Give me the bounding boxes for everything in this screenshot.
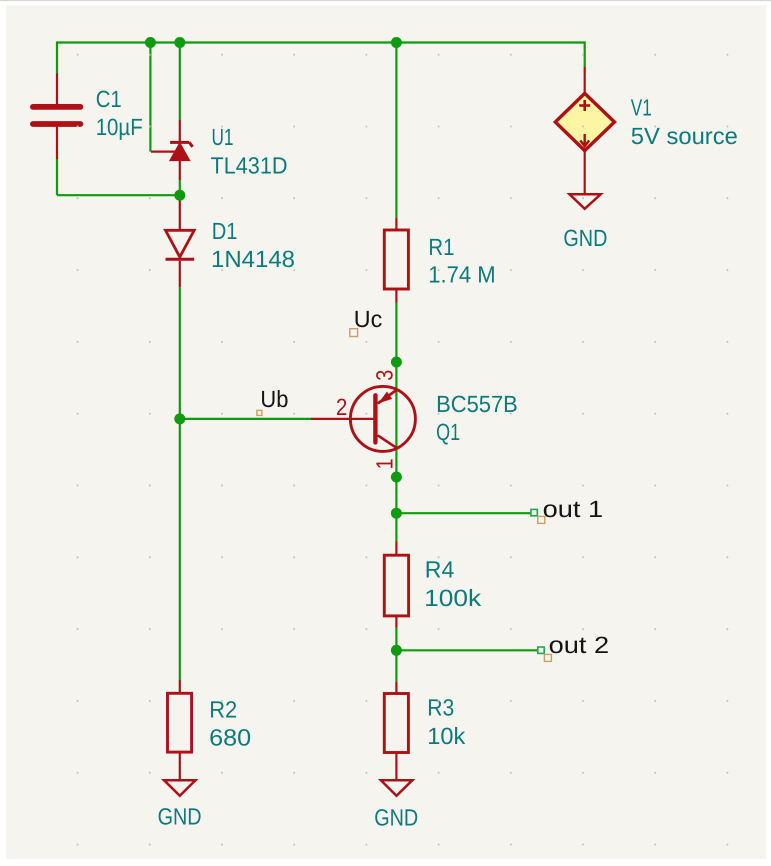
- svg-text:10k: 10k: [427, 723, 465, 749]
- wire drop to C1 top: [56, 41, 58, 73]
- svg-text:1.74 M: 1.74 M: [428, 262, 496, 288]
- svg-text:GND: GND: [374, 805, 418, 831]
- wire R1 through Q1 to R4: [395, 303, 397, 542]
- svg-text:10µF: 10µF: [96, 114, 143, 140]
- svg-text:100k: 100k: [424, 585, 481, 611]
- svg-text:GND: GND: [563, 225, 607, 251]
- wire C1 bottom to U1 anode node: [57, 194, 180, 196]
- diode D1: [166, 196, 195, 287]
- ground below R3: [381, 780, 413, 796]
- capacitor C1: [33, 74, 81, 160]
- junction out 2 tap: [391, 645, 402, 656]
- svg-text:R4: R4: [425, 556, 455, 582]
- svg-text:out 1: out 1: [543, 496, 604, 522]
- junction node Ub: [174, 413, 185, 424]
- junction out 1 tap: [391, 508, 402, 519]
- svg-text:TL431D: TL431D: [211, 153, 288, 179]
- junction node Uc R1 / Q1 emitter: [391, 357, 402, 368]
- svg-text:Ub: Ub: [260, 386, 288, 412]
- resistor R2: [168, 680, 192, 780]
- wire D1 cathode down to R2: [179, 287, 181, 680]
- ground below R2: [164, 780, 196, 796]
- junction top bus / R1: [391, 37, 402, 48]
- resistor R3: [384, 682, 408, 780]
- svg-text:Q1: Q1: [436, 419, 460, 445]
- label anchor out 1: [538, 516, 545, 523]
- voltage source V1: [555, 67, 614, 194]
- wire to out 1: [396, 512, 531, 514]
- svg-text:C1: C1: [96, 86, 122, 112]
- junction top bus / U1 cathode: [174, 37, 185, 48]
- junction node A U1 anode / D1: [174, 190, 185, 201]
- svg-text:1: 1: [372, 458, 398, 469]
- wire top bus from C1 to V1: [57, 41, 585, 43]
- svg-text:D1: D1: [212, 218, 238, 244]
- wire top bus to R1: [395, 43, 397, 218]
- svg-text:R2: R2: [209, 697, 237, 723]
- svg-text:3: 3: [372, 370, 398, 381]
- svg-text:R1: R1: [428, 234, 454, 260]
- svg-text:BC557B: BC557B: [436, 391, 518, 417]
- svg-text:680: 680: [209, 724, 251, 750]
- transistor Q1 BC557B: [311, 386, 415, 451]
- wire C1 bottom drop: [56, 159, 58, 195]
- label anchor Ub: [257, 410, 262, 415]
- wire node Ub to Q1 base: [180, 418, 311, 420]
- wire U1 anode to node A: [179, 180, 181, 195]
- resistor R4: [384, 542, 408, 628]
- junction top bus / U1 ref: [145, 37, 156, 48]
- wire drop to U1 cathode: [179, 43, 181, 121]
- svg-text:U1: U1: [212, 124, 234, 150]
- resistor R1: [384, 218, 408, 303]
- shunt regulator U1 TL431D: [151, 120, 193, 180]
- svg-text:Uc: Uc: [354, 306, 383, 332]
- wire drop to V1: [584, 41, 586, 67]
- svg-text:GND: GND: [158, 804, 202, 830]
- svg-text:out 2: out 2: [549, 632, 610, 658]
- svg-text:R3: R3: [427, 694, 454, 720]
- svg-text:1N4148: 1N4148: [211, 246, 295, 272]
- wire to out 2: [396, 649, 537, 651]
- label anchor Uc: [350, 329, 358, 337]
- svg-text:V1: V1: [631, 94, 652, 120]
- label anchor out 2: [544, 654, 551, 661]
- wire R4 to R3: [395, 628, 397, 682]
- svg-text:2: 2: [336, 394, 348, 420]
- ground below V1: [570, 194, 601, 209]
- svg-text:5V source: 5V source: [631, 123, 738, 149]
- wire end marker out 1: [531, 509, 537, 515]
- junction Q1 collector: [391, 472, 402, 483]
- wire drop to U1 ref: [149, 43, 151, 152]
- wire end marker out 2: [538, 647, 544, 653]
